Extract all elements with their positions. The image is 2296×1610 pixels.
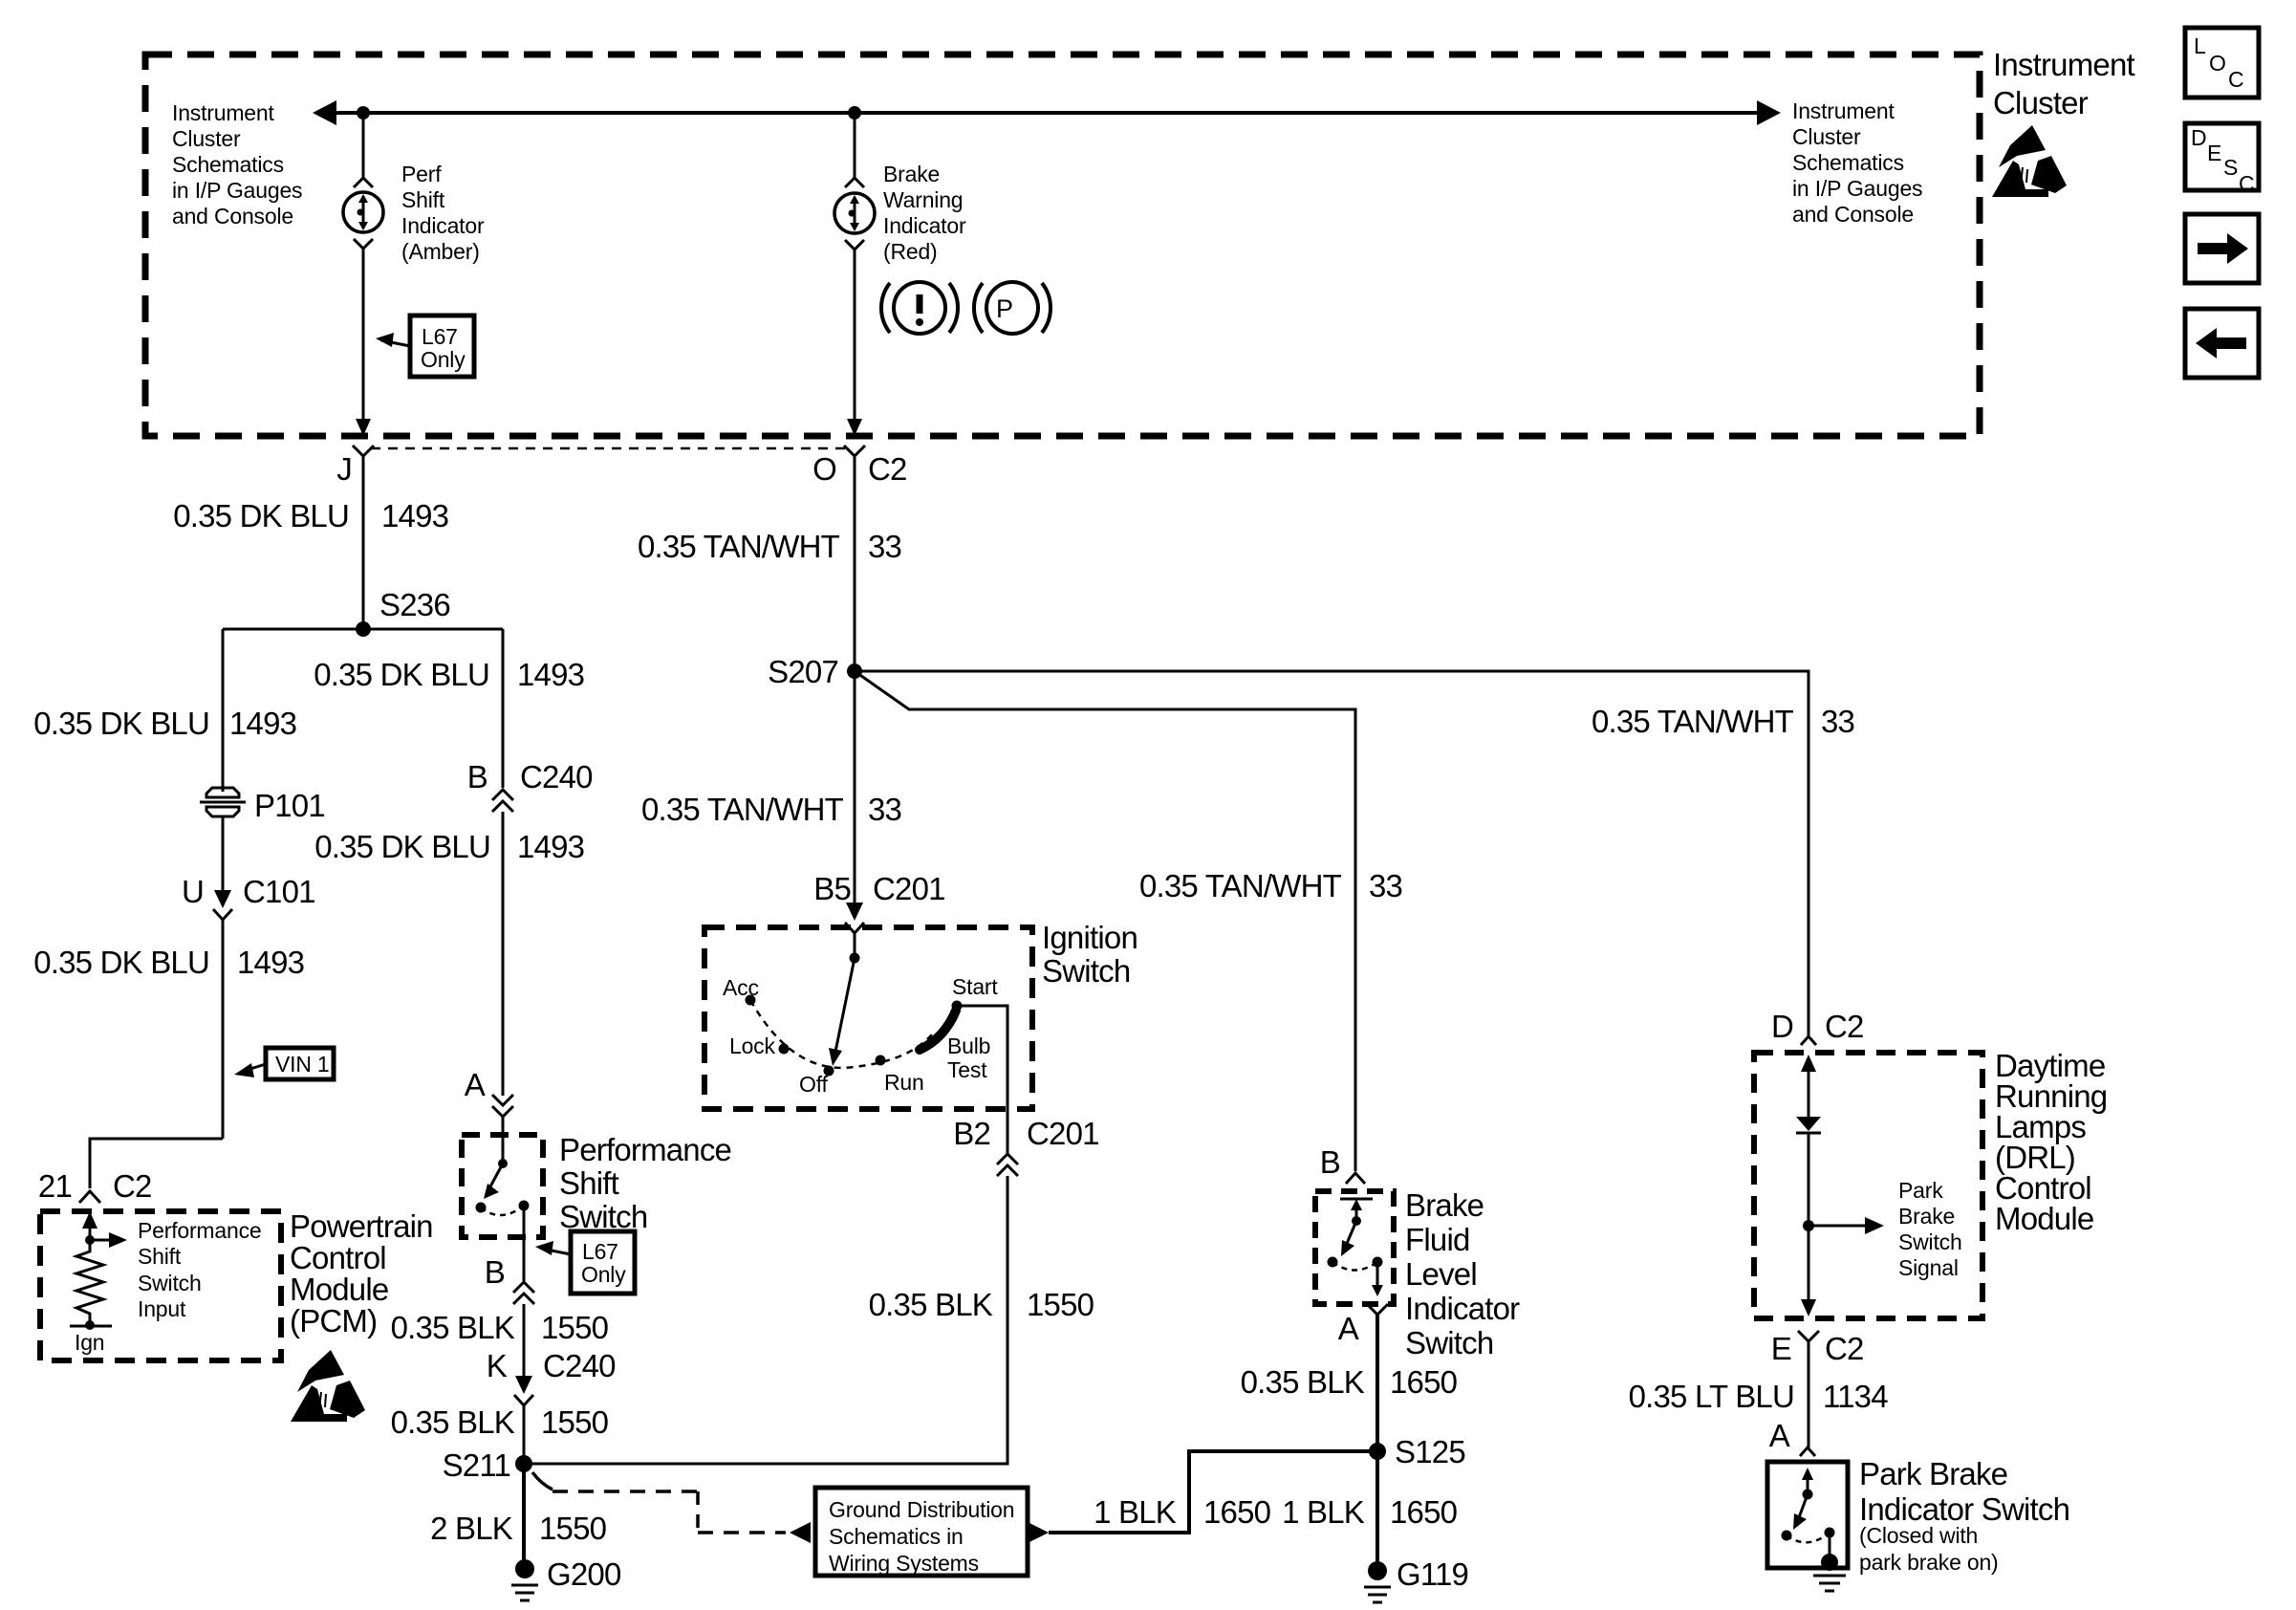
park brake indicator switch box xyxy=(1767,1462,1848,1568)
svg-text:0.35 DK BLU: 0.35 DK BLU xyxy=(33,945,209,980)
callout box VIN 1 xyxy=(234,1048,334,1079)
node: DRL internal junction xyxy=(1803,1220,1814,1231)
svg-text:1 BLK: 1 BLK xyxy=(1094,1494,1177,1530)
svg-text:0.35 DK BLU: 0.35 DK BLU xyxy=(173,498,349,533)
svg-text:Only: Only xyxy=(421,347,466,372)
svg-text:33: 33 xyxy=(1821,704,1854,739)
svg-text:1550: 1550 xyxy=(1027,1287,1094,1322)
svg-text:0.35 DK BLU: 0.35 DK BLU xyxy=(33,706,209,741)
connector pin B of brake fluid level switch xyxy=(1320,1144,1365,1184)
icon: park brake telltale ((P)) xyxy=(974,282,1051,334)
svg-text:2 BLK: 2 BLK xyxy=(430,1511,513,1546)
splice S236 xyxy=(356,587,450,637)
svg-text:Performance: Performance xyxy=(559,1132,731,1167)
svg-text:Ground Distribution: Ground Distribution xyxy=(829,1497,1014,1522)
wire: brake fluid A to S125, 0.35 BLK 1650 xyxy=(1375,1315,1379,1451)
svg-text:S236: S236 xyxy=(379,587,450,622)
svg-text:33: 33 xyxy=(868,792,901,827)
label: Daytime Running Lamps (DRL) Control Module xyxy=(1995,1048,2107,1236)
wire: S207 to DRL feed (top right run) xyxy=(855,671,1809,1015)
svg-text:Switch: Switch xyxy=(559,1199,647,1234)
connector pin U of C101 xyxy=(182,874,315,920)
connector chevron below right bulb xyxy=(845,240,864,250)
connector pin B of performance shift switch xyxy=(485,1254,534,1304)
ignition rotary dashed arc xyxy=(750,1000,932,1068)
svg-text:Level: Level xyxy=(1405,1256,1477,1292)
wire: Start contact to B2 drop xyxy=(957,1006,1007,1154)
connector pin E of DRL C2 xyxy=(1771,1331,1864,1366)
svg-text:L67: L67 xyxy=(582,1239,618,1264)
wire: B2 down to S211 run, 0.35 BLK 1550 xyxy=(524,1176,1007,1464)
svg-text:Module: Module xyxy=(1995,1201,2093,1236)
svg-text:0.35 BLK: 0.35 BLK xyxy=(391,1310,515,1345)
svg-text:S: S xyxy=(2223,155,2238,180)
connector pin A of brake fluid level switch xyxy=(1338,1304,1388,1346)
svg-text:C201: C201 xyxy=(873,871,945,906)
svg-text:Off: Off xyxy=(799,1072,828,1097)
DRL control module dashed box xyxy=(1754,1053,1982,1318)
svg-text:Brake: Brake xyxy=(1405,1187,1484,1223)
label: 0.35 DK BLU 1493 below C240 xyxy=(314,829,584,864)
svg-text:1493: 1493 xyxy=(381,498,448,533)
label: Performance Shift Switch Input xyxy=(138,1218,261,1321)
svg-text:C: C xyxy=(2228,67,2243,92)
instrument cluster left note text xyxy=(172,100,302,228)
performance shift switch dashed box xyxy=(462,1135,543,1237)
connector chevron above right bulb xyxy=(845,178,864,187)
svg-text:1 BLK: 1 BLK xyxy=(1282,1494,1365,1530)
grommet P101 xyxy=(200,788,325,823)
icon: brake warning telltale ((!)) xyxy=(881,282,958,334)
svg-text:Signal: Signal xyxy=(1898,1255,1959,1280)
svg-text:Control: Control xyxy=(290,1240,386,1275)
svg-text:0.35 BLK: 0.35 BLK xyxy=(869,1287,993,1322)
svg-text:C240: C240 xyxy=(520,759,593,794)
svg-text:Schematics: Schematics xyxy=(1792,150,1904,175)
label: 0.35 DK BLU 1493 left branch xyxy=(33,706,296,741)
instrument cluster dashed box xyxy=(145,54,1980,436)
svg-text:in I/P Gauges: in I/P Gauges xyxy=(1792,176,1922,201)
svg-text:Warning: Warning xyxy=(883,187,963,212)
svg-text:0.35 DK BLU: 0.35 DK BLU xyxy=(314,657,489,692)
svg-text:E: E xyxy=(2207,141,2221,165)
svg-text:S207: S207 xyxy=(768,654,838,689)
resistor: PCM pull-up xyxy=(76,1243,103,1325)
splice S211 xyxy=(443,1447,532,1483)
label: 1 BLK 1650 right xyxy=(1282,1494,1458,1530)
DRL output arrow pin xyxy=(1801,1299,1816,1316)
connector pin 21 of PCM C2 xyxy=(38,1168,152,1204)
label: 0.35 TAN/WHT 33 brake fluid branch xyxy=(1139,868,1402,903)
svg-text:Performance: Performance xyxy=(138,1218,261,1243)
arrow: PCM signal tap xyxy=(90,1232,127,1248)
svg-text:C2: C2 xyxy=(1825,1009,1864,1044)
svg-text:C2: C2 xyxy=(1825,1331,1864,1366)
PCM dashed box xyxy=(40,1211,281,1360)
icon: ESD warning triangle (below PCM) xyxy=(291,1350,365,1422)
svg-text:1493: 1493 xyxy=(229,706,296,741)
svg-text:Cluster: Cluster xyxy=(1993,85,2089,120)
ground at park brake switch xyxy=(1813,1554,1846,1591)
connector pin A of park brake switch xyxy=(1769,1418,1815,1456)
svg-text:Shift: Shift xyxy=(401,187,445,212)
svg-text:L67: L67 xyxy=(422,324,458,349)
instrument cluster right note text xyxy=(1792,98,1922,227)
svg-text:L: L xyxy=(2194,33,2206,58)
svg-text:Cluster: Cluster xyxy=(172,126,241,151)
node: junction dot left bulb xyxy=(357,106,370,120)
svg-text:B: B xyxy=(485,1254,505,1290)
svg-text:C2: C2 xyxy=(113,1168,152,1204)
contact dot Off xyxy=(824,1066,834,1077)
splice S125 xyxy=(1369,1434,1465,1469)
connector pin D of DRL C2 xyxy=(1771,1009,1864,1045)
svg-text:(Red): (Red) xyxy=(883,239,938,264)
label: Instrument Cluster title xyxy=(1993,47,2135,120)
wire: right branch S236 down to C240 xyxy=(502,629,505,788)
svg-text:U: U xyxy=(182,874,204,909)
wire: K to S211, 0.35 BLK 1550 xyxy=(523,1405,526,1464)
svg-text:Schematics in: Schematics in xyxy=(829,1524,964,1549)
svg-text:A: A xyxy=(465,1067,486,1102)
wire: left branch S236 down to P101 xyxy=(222,629,225,792)
svg-text:S211: S211 xyxy=(443,1447,510,1483)
svg-text:B: B xyxy=(467,759,487,794)
svg-text:1493: 1493 xyxy=(517,829,584,864)
node: junction dot right bulb xyxy=(848,106,861,120)
svg-text:Bulb: Bulb xyxy=(947,1033,990,1058)
label: Brake Warning Indicator (Red) xyxy=(883,162,966,264)
svg-text:Shift: Shift xyxy=(138,1244,182,1269)
svg-text:VIN 1: VIN 1 xyxy=(275,1052,330,1077)
svg-text:1493: 1493 xyxy=(237,945,304,980)
svg-text:Run: Run xyxy=(884,1070,924,1095)
wire: switch output to B pin xyxy=(523,1206,526,1281)
wire: B pin to C240 K, 0.35 BLK 1550 xyxy=(523,1304,526,1381)
svg-text:Only: Only xyxy=(581,1262,626,1287)
svg-text:Perf: Perf xyxy=(401,162,442,186)
svg-text:0.35 TAN/WHT: 0.35 TAN/WHT xyxy=(638,529,840,564)
nav box LOC xyxy=(2185,28,2259,98)
wire: J to S236, 0.35 DK BLU 1493 xyxy=(362,456,365,629)
splice S207 xyxy=(768,654,862,689)
connector pin K of C240 xyxy=(487,1348,616,1405)
svg-text:Powertrain: Powertrain xyxy=(290,1208,433,1244)
svg-text:S125: S125 xyxy=(1395,1434,1465,1469)
contact dot Start xyxy=(952,1001,963,1012)
label: 0.35 DK BLU 1493 below S236 xyxy=(314,657,584,692)
label: 0.35 TAN/WHT 33 below O xyxy=(638,529,901,564)
svg-text:1493: 1493 xyxy=(517,657,584,692)
arrow: park brake switch signal tap xyxy=(1809,1217,1884,1234)
svg-text:Switch: Switch xyxy=(138,1271,202,1295)
diode inside DRL xyxy=(1796,1117,1821,1133)
svg-text:33: 33 xyxy=(868,529,901,564)
svg-text:and Console: and Console xyxy=(172,204,293,228)
callout box L67 Only upper xyxy=(376,315,474,377)
wire: diode to DRL output pin xyxy=(1808,1133,1810,1303)
label: Ignition Switch xyxy=(1042,920,1137,989)
wire: S207 angled branch to brake fluid switch xyxy=(855,671,1355,1171)
label: 0.35 BLK 1550 on B2 wire xyxy=(869,1287,1094,1322)
callout box L67 Only lower xyxy=(535,1231,635,1294)
svg-text:Instrument: Instrument xyxy=(1993,47,2135,82)
svg-text:P: P xyxy=(996,294,1013,323)
switch: performance shift switch contacts xyxy=(476,1117,530,1215)
connector pin J of cluster xyxy=(336,446,374,487)
dashed link: S211 to ground distribution callout xyxy=(532,1472,811,1543)
wire: S125 to G119 xyxy=(1375,1451,1379,1564)
connector C2 cluster dashed line between J and O xyxy=(371,447,847,450)
svg-text:B2: B2 xyxy=(953,1116,990,1151)
contact dot Run xyxy=(876,1055,886,1066)
svg-text:Shift: Shift xyxy=(559,1165,619,1201)
svg-text:and Console: and Console xyxy=(1792,202,1914,227)
ground G200 xyxy=(511,1556,621,1600)
wire: right bulb to cluster edge xyxy=(847,249,862,436)
svg-text:park brake on): park brake on) xyxy=(1859,1550,1999,1575)
svg-text:O: O xyxy=(2209,51,2226,76)
wire: S207 down to B5, 0.35 TAN/WHT 33 xyxy=(854,671,856,906)
label: Powertrain Control Module (PCM) xyxy=(290,1208,433,1338)
wire: C101 down, 0.35 DK BLU 1493 xyxy=(222,920,225,1139)
label: 0.35 TAN/WHT 33 above B5 xyxy=(641,792,901,827)
svg-text:Cluster: Cluster xyxy=(1792,124,1861,149)
svg-text:Instrument: Instrument xyxy=(172,100,274,125)
label: Brake Fluid Level Indicator Switch xyxy=(1405,1187,1520,1360)
svg-text:Lock: Lock xyxy=(729,1033,775,1058)
svg-text:0.35 LT BLU: 0.35 LT BLU xyxy=(1629,1379,1794,1414)
svg-text:A: A xyxy=(1769,1418,1790,1453)
svg-text:D: D xyxy=(1771,1009,1793,1044)
lamp: Brake Warning Indicator (Red) bulb xyxy=(834,193,875,233)
svg-text:Park: Park xyxy=(1898,1178,1943,1203)
wire: P101 to connector C101 xyxy=(222,816,225,891)
svg-text:1650: 1650 xyxy=(1390,1494,1458,1530)
svg-text:C101: C101 xyxy=(243,874,315,909)
svg-text:C: C xyxy=(2239,171,2254,196)
wire: drop to perf shift indicator bulb xyxy=(362,113,365,180)
label: 0.35 DK BLU 1493 below J xyxy=(173,498,448,533)
svg-text:B5: B5 xyxy=(813,871,851,906)
wire: ground distribution to S125, 1 BLK 1650 xyxy=(1028,1451,1377,1543)
svg-text:(PCM): (PCM) xyxy=(290,1303,377,1338)
wire: S236 horizontal span xyxy=(223,628,503,631)
label: Park Brake Indicator Switch xyxy=(1859,1456,2069,1527)
svg-text:P101: P101 xyxy=(254,788,325,823)
svg-text:C2: C2 xyxy=(868,451,907,487)
svg-text:1550: 1550 xyxy=(541,1310,609,1345)
nav box back arrow xyxy=(2185,309,2259,378)
svg-text:Ignition: Ignition xyxy=(1042,920,1137,955)
svg-text:Park Brake: Park Brake xyxy=(1859,1456,2007,1491)
label: Park Brake Switch Signal xyxy=(1898,1178,1962,1280)
switch: park brake contacts xyxy=(1782,1468,1835,1556)
svg-text:Indicator Switch: Indicator Switch xyxy=(1859,1491,2069,1527)
label: 0.35 DK BLU 1493 above PCM xyxy=(33,945,304,980)
label: 0.35 BLK 1550 above K xyxy=(391,1310,609,1345)
DRL input arrow pin xyxy=(1801,1055,1816,1117)
wire: S211 to G200, 2 BLK 1550 xyxy=(522,1464,526,1562)
nav box forward arrow xyxy=(2185,214,2259,283)
svg-text:D: D xyxy=(2191,125,2206,150)
connector pin A of performance shift switch xyxy=(465,1067,513,1117)
svg-text:Module: Module xyxy=(290,1272,388,1307)
svg-text:B: B xyxy=(1320,1144,1340,1180)
ignition switch dashed box xyxy=(704,927,1032,1109)
connector chevron above left bulb xyxy=(354,178,373,187)
svg-text:Switch: Switch xyxy=(1042,953,1130,989)
svg-text:Brake: Brake xyxy=(1898,1204,1955,1229)
svg-text:(Closed with: (Closed with xyxy=(1859,1523,1978,1548)
wire: left bulb to cluster edge xyxy=(356,248,371,436)
svg-text:A: A xyxy=(1338,1311,1359,1346)
svg-text:K: K xyxy=(487,1348,508,1383)
contact dot Acc xyxy=(746,995,756,1006)
wire: drop to brake warning indicator bulb xyxy=(854,113,856,178)
svg-text:33: 33 xyxy=(1369,868,1402,903)
wire: O to S207, 0.35 TAN/WHT 33 xyxy=(854,456,856,671)
svg-text:0.35 BLK: 0.35 BLK xyxy=(391,1404,515,1440)
icon: ESD warning triangle (top right) xyxy=(1992,125,2067,197)
contact dot Lock xyxy=(779,1044,790,1055)
connector chevron below left bulb xyxy=(354,239,373,249)
wire: B5 into ignition switch xyxy=(854,933,856,958)
svg-text:Test: Test xyxy=(947,1057,987,1082)
svg-text:Instrument: Instrument xyxy=(1792,98,1895,123)
svg-text:Switch: Switch xyxy=(1898,1229,1962,1254)
svg-text:0.35 TAN/WHT: 0.35 TAN/WHT xyxy=(1592,704,1794,739)
svg-text:Ign: Ign xyxy=(75,1330,104,1355)
callout box Ground Distribution xyxy=(815,1488,1028,1576)
svg-text:1550: 1550 xyxy=(541,1404,609,1440)
svg-text:in I/P Gauges: in I/P Gauges xyxy=(172,178,302,203)
svg-text:O: O xyxy=(812,451,836,487)
nav box DESC xyxy=(2185,123,2259,196)
label: 2 BLK 1550 xyxy=(430,1511,607,1546)
svg-text:Input: Input xyxy=(138,1296,186,1321)
label: 0.35 BLK 1550 below K xyxy=(391,1404,609,1440)
label: 1 BLK 1650 left xyxy=(1094,1494,1271,1530)
ground G119 xyxy=(1364,1556,1468,1602)
svg-text:G200: G200 xyxy=(547,1556,621,1592)
svg-text:1650: 1650 xyxy=(1390,1364,1458,1400)
svg-text:G119: G119 xyxy=(1397,1556,1468,1592)
svg-text:Acc: Acc xyxy=(723,975,759,1000)
svg-text:Start: Start xyxy=(952,974,998,999)
svg-text:Schematics: Schematics xyxy=(172,152,284,177)
svg-text:Switch: Switch xyxy=(1405,1325,1493,1360)
svg-text:Indicator: Indicator xyxy=(1405,1291,1520,1326)
label: Bulb Test xyxy=(947,1033,990,1082)
lamp: Perf Shift Indicator (Amber) bulb xyxy=(343,192,383,232)
svg-text:Wiring Systems: Wiring Systems xyxy=(829,1551,979,1576)
svg-text:Fluid: Fluid xyxy=(1405,1222,1470,1257)
svg-text:Indicator: Indicator xyxy=(883,213,966,238)
node: PCM resistor bottom junction xyxy=(70,1320,112,1330)
ignition bulb test thick arc xyxy=(920,1011,956,1050)
label: 0.35 BLK 1650 xyxy=(1241,1364,1458,1400)
PCM input pin arrow xyxy=(82,1211,97,1243)
connector pin O of cluster C2 xyxy=(812,446,906,487)
brake fluid level indicator switch dashed box xyxy=(1315,1191,1394,1304)
connector pin B of C240 xyxy=(467,759,593,812)
svg-text:0.35 TAN/WHT: 0.35 TAN/WHT xyxy=(1139,868,1342,903)
svg-text:J: J xyxy=(336,451,352,487)
svg-text:0.35 TAN/WHT: 0.35 TAN/WHT xyxy=(641,792,844,827)
svg-text:0.35 DK BLU: 0.35 DK BLU xyxy=(314,829,490,864)
svg-text:Brake: Brake xyxy=(883,162,940,186)
svg-text:1550: 1550 xyxy=(539,1511,607,1546)
connector pin B2 of C201 xyxy=(953,1116,1098,1176)
svg-text:0.35 BLK: 0.35 BLK xyxy=(1241,1364,1365,1400)
svg-text:E: E xyxy=(1771,1331,1791,1366)
label: 0.35 TAN/WHT 33 right run xyxy=(1592,704,1854,739)
node: PCM internal junction xyxy=(85,1235,95,1245)
switch: brake fluid level contacts xyxy=(1328,1199,1384,1296)
label: Perf Shift Indicator (Amber) xyxy=(401,162,485,264)
svg-text:1650: 1650 xyxy=(1203,1494,1271,1530)
connector pin B5 of C201 xyxy=(813,871,944,933)
svg-text:(Amber): (Amber) xyxy=(401,239,480,264)
label: 0.35 LT BLU 1134 xyxy=(1629,1379,1889,1414)
wire: jog left into PCM pin 21 xyxy=(90,1139,223,1188)
wire: top feed line between left and right note arrows xyxy=(313,100,1781,125)
label: (Closed with park brake on) xyxy=(1859,1523,1999,1575)
switch: ignition rotary wiper xyxy=(829,953,860,1067)
wire: E to park brake switch, 0.35 LT BLU 1134 xyxy=(1808,1341,1810,1447)
svg-text:1134: 1134 xyxy=(1823,1379,1888,1414)
label: Performance Shift Switch xyxy=(559,1132,731,1234)
svg-text:Indicator: Indicator xyxy=(401,213,485,238)
svg-text:21: 21 xyxy=(38,1168,72,1204)
svg-text:C240: C240 xyxy=(543,1348,616,1383)
svg-text:C201: C201 xyxy=(1027,1116,1099,1151)
wire: C240 to performance shift switch, 0.35 DK BLU 1493 xyxy=(502,812,505,1096)
